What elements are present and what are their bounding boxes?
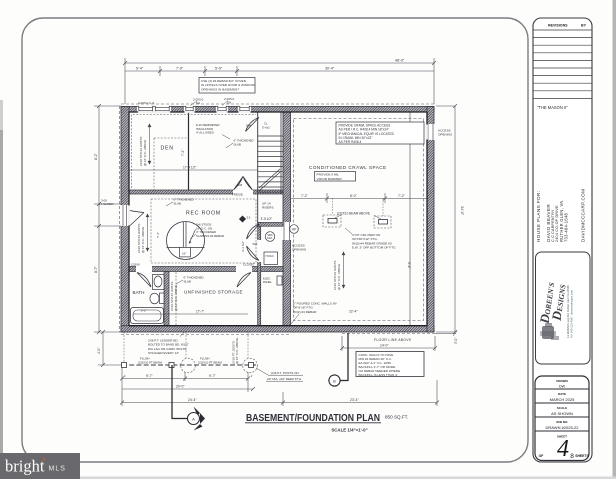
svg-text:@ 16" O.C. ABOVE: @ 16" O.C. ABOVE	[337, 264, 341, 290]
svg-text:PANEL: PANEL	[263, 280, 272, 284]
window openings in top wall	[137, 106, 251, 113]
svg-text:SLAB: SLAB	[234, 142, 241, 146]
svg-text:4'-3 1/2": 4'-3 1/2"	[241, 241, 245, 252]
svg-text:30'-4": 30'-4"	[325, 66, 335, 70]
deck posts squares	[122, 363, 254, 368]
svg-text:5'-0": 5'-0"	[215, 66, 223, 70]
svg-text:HOUSE PLANS FOR:: HOUSE PLANS FOR:	[536, 191, 541, 242]
svg-text:8'-7": 8'-7"	[94, 265, 98, 273]
crawl space beam line vertical	[409, 112, 411, 325]
scanner edge shading bottom	[80, 477, 616, 479]
svg-text:50#: 50#	[246, 124, 251, 128]
svg-text:(2)2X6: (2)2X6	[131, 262, 140, 266]
svg-text:(2)2X10 PT BEAM: (2)2X10 PT BEAM	[138, 360, 162, 364]
svg-text:UNFINISHED STORAGE: UNFINISHED STORAGE	[184, 290, 243, 295]
svg-text:7'-0": 7'-0"	[176, 66, 184, 70]
svg-text:5'-4": 5'-4"	[136, 66, 144, 70]
svg-text:50#: 50#	[253, 242, 258, 246]
svg-text:bright: bright	[5, 457, 45, 476]
left 4'-0 dim	[98, 330, 122, 367]
scanner edge shading right	[613, 0, 616, 479]
right dimension line 34'-0	[436, 104, 457, 334]
bright MLS logo	[0, 453, 80, 479]
svg-text:16": 16"	[182, 252, 186, 256]
svg-text:9'-4": 9'-4"	[407, 262, 411, 270]
svg-text:@ 16" O.C. ABOVE: @ 16" O.C. ABOVE	[235, 338, 239, 364]
svg-text:DH: DH	[196, 101, 200, 105]
svg-text:MARCH 2025: MARCH 2025	[550, 397, 575, 402]
section marker A	[172, 365, 205, 431]
14'-0 dim	[340, 336, 437, 351]
rebar lintel note box	[199, 78, 255, 94]
svg-text:24'-4": 24'-4"	[188, 398, 197, 402]
svg-text:4: 4	[557, 436, 569, 462]
svg-text:1': 1'	[251, 374, 254, 378]
svg-text:RISERS: RISERS	[262, 206, 274, 210]
hvac unit	[264, 252, 278, 265]
access opening gap in dividing wall	[282, 222, 291, 240]
svg-text:9'-7": 9'-7"	[146, 374, 154, 378]
crawl access note box	[336, 122, 424, 144]
doreen's designs block	[536, 252, 591, 364]
svg-text:SLAB: SLAB	[184, 279, 191, 283]
svg-text:MLS: MLS	[49, 466, 66, 473]
stair break diagonal	[259, 172, 280, 191]
svg-text:20" DIA. x24" DEEP FTG.: 20" DIA. x24" DEEP FTG.	[267, 377, 302, 381]
17'-7 dim	[133, 313, 248, 315]
svg-text:BY: BY	[581, 24, 587, 28]
stairs treads	[258, 112, 283, 194]
svg-text:20'-0": 20'-0"	[176, 385, 185, 389]
slider opening in left wall	[120, 205, 129, 226]
bath tub	[131, 308, 164, 324]
left dimension line	[94, 104, 121, 334]
svg-text:22'-4": 22'-4"	[349, 310, 358, 314]
svg-text:BASEMENT/FOUNDATION PLAN: BASEMENT/FOUNDATION PLAN	[246, 412, 380, 424]
deck beam dashed line	[122, 364, 256, 366]
stair bottom wall	[258, 223, 283, 227]
pier circles dashed	[181, 358, 196, 373]
dim 20'-0	[122, 387, 255, 391]
svg-text:8: 8	[570, 453, 574, 460]
svg-text:OPENING: OPENING	[438, 133, 453, 137]
svg-text:DEN: DEN	[161, 146, 174, 152]
dashed line below bottom wall left	[121, 334, 291, 336]
svg-text:A: A	[192, 416, 195, 421]
crawl piers	[323, 215, 341, 227]
smoke detector circle	[265, 232, 275, 242]
den perimeter insulation dashed	[132, 115, 257, 189]
3' tick right	[434, 333, 456, 335]
closet door upper	[247, 224, 260, 239]
svg-text:DW: DW	[559, 385, 566, 389]
re-clear window gaps over inner edges	[129, 112, 427, 226]
section marker B	[328, 333, 348, 387]
svg-text:4" ALL SIDES: 4" ALL SIDES	[196, 131, 214, 135]
svg-text:14'-0": 14'-0"	[380, 344, 389, 348]
svg-text:CLOSET: CLOSET	[243, 262, 255, 266]
svg-text:REVISIONS: REVISIONS	[548, 24, 568, 28]
bottom exterior wall	[121, 326, 434, 332]
svg-text:HVAC: HVAC	[266, 254, 275, 258]
svg-text:7'-2": 7'-2"	[181, 150, 185, 156]
svg-text:(2)2X10 PT BEAM: (2)2X10 PT BEAM	[198, 360, 222, 364]
svg-text:48'-0": 48'-0"	[395, 59, 405, 63]
svg-text:OPENINGS IN BASEMENT: OPENINGS IN BASEMENT	[201, 87, 239, 91]
svg-text:(2)2X10 BEAM ABOVE: (2)2X10 BEAM ABOVE	[337, 212, 370, 216]
hp circle on dividing wall	[290, 225, 299, 234]
revisions table	[533, 30, 592, 98]
elec panel	[277, 276, 282, 285]
svg-text:SHEETS: SHEETS	[575, 454, 589, 458]
pier drop lines to dim	[332, 198, 334, 215]
rec room double door at hall wall	[234, 177, 253, 191]
svg-text:850 SQ.FT.: 850 SQ.FT.	[385, 415, 408, 420]
svg-text:FRIDGE: FRIDGE	[232, 192, 243, 196]
svg-text:VAPOR BARRIER: VAPOR BARRIER	[317, 177, 343, 181]
den dimension line 17'-4 1/2	[129, 169, 258, 171]
svg-text:@ 16" O.C. ABOVE: @ 16" O.C. ABOVE	[141, 227, 145, 253]
bath east wall	[164, 272, 169, 326]
svg-text:"THE MASON II": "THE MASON II"	[537, 105, 568, 110]
right exterior wall (crawl)	[427, 107, 434, 333]
dim 9'-7 pair	[120, 368, 250, 392]
crawl interior dim line	[291, 193, 427, 203]
svg-text:OF: OF	[539, 454, 544, 458]
svg-text:7'-2": 7'-2"	[398, 194, 406, 198]
closet door lower	[247, 246, 260, 261]
svg-text:8'-2": 8'-2"	[94, 152, 98, 160]
svg-text:SLAB: SLAB	[174, 201, 181, 205]
dashed floor outline left of left wall	[118, 106, 120, 332]
svg-text:4'-0": 4'-0"	[97, 348, 101, 354]
svg-text:13 McWhirt Loop Rd. Ruther Gle: 13 McWhirt Loop Rd. Ruther Glen VA 22546	[566, 285, 570, 338]
storage door	[237, 273, 251, 288]
svg-text:BACKFILL IS LESS THAN 4'.: BACKFILL IS LESS THAN 4'.	[359, 373, 399, 377]
conc walls note box	[356, 352, 424, 377]
top exterior wall	[121, 107, 434, 113]
svg-text:SCALE: SCALE	[557, 406, 567, 410]
svg-text:FLOOR LINE ABOVE: FLOOR LINE ABOVE	[374, 338, 412, 342]
bath door	[137, 273, 151, 288]
page frame rounded border	[22, 18, 528, 462]
svg-text:3'-5 1/2": 3'-5 1/2"	[261, 217, 273, 221]
svg-text:17'-7": 17'-7"	[196, 310, 204, 314]
svg-text:7'-4": 7'-4"	[156, 232, 160, 238]
top overall dimension line 48'-0	[123, 58, 436, 104]
crest ornament	[540, 323, 559, 340]
svg-text:SLAB W/2 #4 REBAR: SLAB W/2 #4 REBAR	[196, 234, 224, 238]
svg-text:*: *	[42, 456, 46, 466]
house plans for (vertical text)	[536, 189, 586, 242]
svg-text:17'-4 1/2": 17'-4 1/2"	[183, 166, 196, 170]
svg-text:703-484-1648: 703-484-1648	[564, 212, 569, 242]
svg-text:Tel: 540-123-4567 doreensdesi: Tel: 540-123-4567 doreensdesigns.com	[570, 289, 574, 338]
top segment dimension line	[125, 66, 434, 76]
svg-text:3.5: 3.5	[247, 216, 251, 220]
svg-text:+4 SLIDER: +4 SLIDER	[99, 202, 114, 206]
svg-text:DAVIDMCCCARP.COM: DAVIDMCCCARP.COM	[581, 189, 586, 242]
svg-text:HP: HP	[292, 228, 297, 232]
svg-text:8'-0": 8'-0"	[350, 194, 358, 198]
svg-text:AS PER R408.4: AS PER R408.4	[339, 140, 362, 144]
svg-text:(2)6 P.T. POSTS ON: (2)6 P.T. POSTS ON	[271, 371, 299, 375]
den partition wall	[188, 112, 190, 190]
svg-text:@ 16" O.C. ABOVE: @ 16" O.C. ABOVE	[143, 140, 147, 166]
svg-text:W/(2) #4 REBAR: W/(2) #4 REBAR	[293, 310, 317, 314]
dashed floor outline above top wall	[121, 103, 436, 105]
svg-text:@ 16" O.C. ABOVE: @ 16" O.C. ABOVE	[174, 285, 178, 311]
svg-text:OPENING: OPENING	[292, 248, 307, 252]
svg-text:REC ROOM: REC ROOM	[186, 211, 221, 217]
svg-text:CONDITIONED CRAWL SPACE: CONDITIONED CRAWL SPACE	[309, 165, 387, 170]
svg-text:3'-0": 3'-0"	[454, 338, 458, 344]
svg-text:9'-7": 9'-7"	[209, 374, 217, 378]
svg-text:7'-2": 7'-2"	[301, 194, 309, 198]
b3.5 marker	[239, 215, 246, 222]
svg-text:50#: 50#	[238, 183, 243, 187]
closet/hvac wall	[258, 223, 261, 326]
slider door leaf into rec room	[130, 211, 145, 227]
svg-text:E.W. 3" OFF BOTTOM OF FTG.: E.W. 3" OFF BOTTOM OF FTG.	[352, 246, 396, 250]
svg-text:STAGGER EVERY 14": STAGGER EVERY 14"	[148, 351, 179, 355]
access opening gap in right wall	[426, 124, 434, 140]
storage dashed joist line	[175, 272, 177, 325]
dim 24'-4 / 23'-4	[120, 380, 439, 406]
dashed floor line right	[342, 333, 434, 335]
scanner edge shading left	[0, 130, 3, 479]
vapor barrier note	[315, 172, 356, 182]
interior wall den/rec room	[129, 190, 283, 194]
svg-text:SCALE 1/4"=1'-0": SCALE 1/4"=1'-0"	[331, 428, 367, 433]
title column outer border	[533, 18, 592, 462]
rec room dashed zone	[151, 199, 256, 263]
bath sink	[153, 275, 165, 290]
den interior dashed zone	[153, 138, 155, 190]
crawl space inner dashed rect	[294, 119, 424, 321]
svg-text:BATH: BATH	[133, 290, 145, 295]
post drop lines	[124, 332, 248, 362]
svg-text:1': 1'	[124, 374, 127, 378]
svg-text:DRAWN #2025-22: DRAWN #2025-22	[546, 425, 580, 430]
stairwell west wall	[257, 112, 259, 223]
svg-text:4-0X5-0 C.O.: 4-0X5-0 C.O.	[138, 101, 155, 105]
svg-text:2'-2": 2'-2"	[141, 309, 147, 313]
left exterior wall	[121, 107, 129, 333]
svg-text:B: B	[333, 378, 336, 383]
rec room detail callout circle	[167, 222, 205, 260]
svg-text:DET: DET	[267, 236, 273, 240]
svg-text:5'-6x1': 5'-6x1'	[262, 125, 271, 129]
den door	[246, 118, 260, 132]
heavy inner wall edges	[129, 112, 427, 326]
svg-text:34'-0": 34'-0"	[460, 206, 464, 216]
svg-text:23'-4": 23'-4"	[350, 398, 359, 402]
svg-text:AS SHOWN: AS SHOWN	[551, 411, 573, 416]
svg-text:DRAWN: DRAWN	[556, 379, 567, 383]
svg-text:DATE: DATE	[558, 392, 566, 396]
bottom data block	[535, 376, 590, 462]
interior wall rec room / bath+storage	[129, 267, 283, 272]
svg-text:JOB NO.: JOB NO.	[556, 420, 569, 424]
bath toilet	[160, 293, 165, 304]
dividing wall basement/crawl	[283, 112, 291, 326]
